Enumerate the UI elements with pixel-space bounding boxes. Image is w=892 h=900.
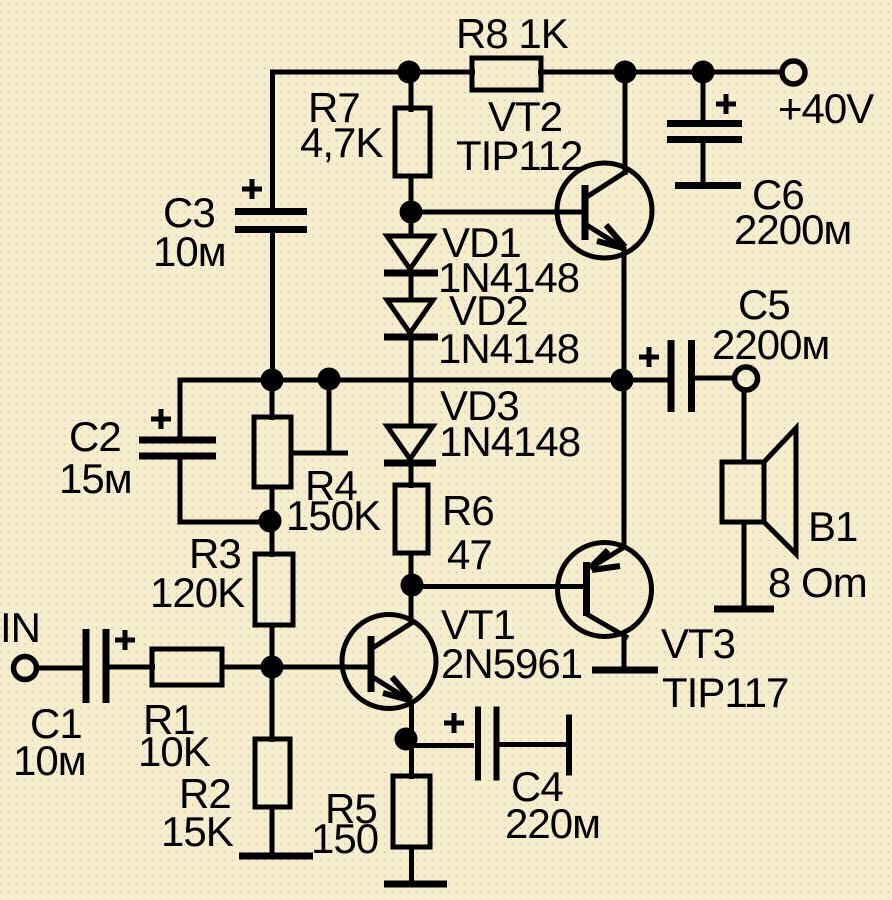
svg-text:1N4148: 1N4148 [438,325,579,372]
wire C3 bottom to mid bus [270,229,275,380]
wire VT1 collector lead [409,585,414,625]
resistor R3 [255,554,293,625]
svg-text:15K: 15K [161,808,234,855]
wire R2 top lead [270,667,275,742]
wire C6 top lead [701,72,706,122]
node top rail / R7-R8 junction [398,61,421,84]
wire VT2 emitter to output rail [622,247,627,382]
capacitor C1 [86,629,106,703]
svg-text:4,7K: 4,7K [300,119,383,166]
wire R4 top lead [270,380,275,420]
node R1 / R3 / R2 / VT1 base junction [261,656,284,679]
capacitor C2 [139,440,216,456]
plus sign of C2 [151,409,171,429]
svg-text:220м: 220м [505,800,600,847]
wire R5 top lead [409,739,414,779]
svg-text:2N5961: 2N5961 [441,640,582,687]
plus sign of C3 [242,179,262,199]
svg-text:2200м: 2200м [734,206,851,253]
svg-text:VT3: VT3 [661,620,735,667]
wire top rail left segment [270,70,475,75]
wire speaker top lead [742,388,747,464]
svg-text:47: 47 [447,531,492,578]
plus sign of C4 [444,713,464,733]
wire R2 bottom lead [270,807,275,856]
wire R7 top lead [409,72,414,112]
wire C2 bottom lead to R3/R4 node [178,456,271,525]
wire R7 bottom lead [409,176,414,214]
wire VD1 cathode to VD2 anode [409,269,414,300]
wire R1 to node [222,665,274,670]
svg-text:1N4148: 1N4148 [439,418,580,465]
capacitor C6 [667,124,742,186]
svg-text:R6: R6 [442,487,494,534]
wire VD2 cathode to VD3 anode (crosses mid bus) [409,333,414,426]
node top rail / VT2 collector junction [614,61,637,84]
svg-text:150: 150 [311,815,378,862]
svg-text:TIP112: TIP112 [456,132,582,179]
wire output rail VT3 top [622,380,627,547]
plus sign of C1 [115,630,135,650]
svg-text:10м: 10м [153,228,226,275]
diode VD3 [384,426,436,463]
wire R3 top lead [270,521,275,557]
svg-text:150K: 150K [286,492,381,539]
resistor R5 [393,776,430,847]
transistor VT1 [342,615,436,709]
node top rail / C6 junction [692,61,715,84]
capacitor C5 [671,340,737,412]
node mid bus / output rail junction [611,369,634,392]
ground VT3 [592,667,658,674]
svg-text:15м: 15м [59,455,132,502]
wire mid bus [180,378,668,383]
svg-text:10м: 10м [13,737,86,784]
svg-text:10K: 10K [138,728,211,775]
capacitor C3 [235,212,307,230]
svg-text:TIP117: TIP117 [662,669,788,716]
svg-text:R8 1K: R8 1K [456,10,569,57]
wire VT2 base lead [411,210,583,215]
wire VT3 bottom lead [622,635,627,670]
wire VT3 base lead [412,584,585,589]
diode VD2 [384,300,438,337]
svg-text:C2: C2 [69,413,121,460]
svg-text:B1: B1 [808,503,857,550]
svg-text:+40V: +40V [778,85,874,132]
wire R4 bottom lead [270,487,275,522]
node mid bus / R4 tap junction [318,368,341,391]
capacitor C4 [478,707,569,781]
plus sign of C6 [716,94,736,114]
wire speaker bottom lead [742,522,747,608]
wire VD3 cathode to R6 [409,459,414,488]
node mid bus / C3 / R4 junction [261,369,284,392]
node VT1 emitter / R5 / C4 junction [395,728,418,751]
wire VT1 emitter lead [409,700,414,742]
ground speaker [714,606,774,613]
node R4 / R3 / C2 junction [259,510,282,533]
wire R4 tap L from bus node [292,379,348,453]
wire VT2 collector lead [623,72,628,175]
node R6 / VT1 collector / VT3 base junction [401,574,424,597]
node R7 / VD1 / VT2 base junction [400,201,423,224]
resistor R6 [395,485,428,553]
speaker B1 [722,428,796,554]
wire C2 top lead from bus corner [178,378,183,441]
terminal output circle [735,367,758,390]
resistor R2 [255,739,290,807]
wire C1 to R1 [106,665,155,670]
wire R3 bottom lead [270,625,275,668]
terminal +40V [782,61,805,84]
wire VT1 base lead [272,665,369,670]
wire VD1 anode lead [409,212,414,236]
resistor R7 [395,108,430,176]
svg-text:120K: 120K [150,569,245,616]
wire top-left corner vertical to C3 [270,70,275,212]
ground R5 [384,881,447,888]
resistor R1 [152,649,222,685]
diode VD1 [384,236,438,273]
svg-text:2200м: 2200м [712,321,829,368]
plus sign of C5 [639,347,659,367]
svg-text:IN: IN [0,604,40,651]
wire top rail right segment [538,70,782,75]
transistor VT2 [557,163,652,258]
wire R6 bottom lead [409,553,414,587]
resistor R8 [472,58,541,90]
wire R5 bottom lead [409,847,414,884]
resistor R4 [254,417,291,487]
wire C4 left lead [406,743,474,748]
svg-text:8 Om: 8 Om [768,559,867,606]
transistor VT3 [558,543,652,639]
terminal IN circle [14,657,37,680]
ground R2 [239,853,313,860]
wire IN to C1 [36,666,84,671]
